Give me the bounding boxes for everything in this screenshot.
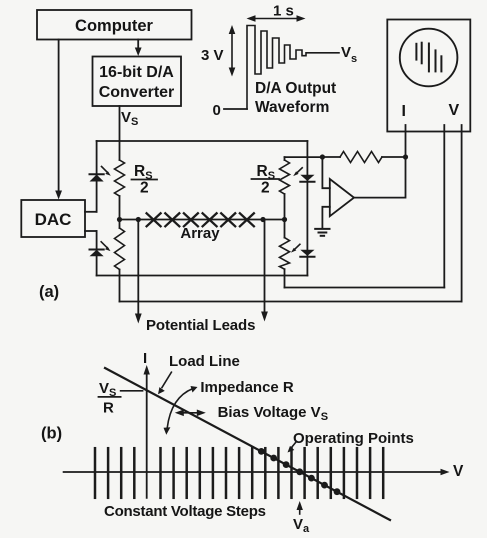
Josephson junction X2 <box>165 213 179 226</box>
potential lead right <box>264 220 266 314</box>
wire DAC upper stub <box>85 211 97 213</box>
resistor right lower <box>280 238 290 270</box>
wire resistor to node <box>119 196 121 220</box>
double arrow bias <box>180 412 202 414</box>
wire top rail <box>97 140 308 142</box>
svg-text:Potential Leads: Potential Leads <box>146 317 255 334</box>
constant voltage step ticks <box>95 448 383 498</box>
diode D3 <box>300 175 314 181</box>
svg-text:(b): (b) <box>41 425 62 443</box>
double arrow 1s span <box>251 18 301 20</box>
operating point 2 <box>270 455 277 462</box>
double arrow 3V span <box>231 30 233 72</box>
wire inverting input <box>322 157 329 188</box>
wire Vs from converter to bridge <box>119 106 121 160</box>
resistor Rs/2 left upper <box>115 160 125 196</box>
wire noninverting input to ground <box>322 207 329 229</box>
operating point 3 <box>283 461 290 468</box>
feedback resistor <box>340 152 382 163</box>
wire inner return <box>285 287 445 289</box>
box meter <box>387 20 470 132</box>
svg-text:Bias Voltage VS: Bias Voltage VS <box>218 404 328 423</box>
svg-text:Operating Points: Operating Points <box>293 430 414 447</box>
svg-text:D/A Output: D/A Output <box>255 80 336 97</box>
wire node to resistor <box>284 220 286 238</box>
svg-text:2: 2 <box>140 180 149 197</box>
svg-text:3 V: 3 V <box>201 47 224 64</box>
wire array <box>120 219 285 221</box>
svg-text:Waveform: Waveform <box>255 99 329 116</box>
arrow on D2 <box>101 242 108 249</box>
Josephson junction X3 <box>184 213 198 226</box>
wire meter I terminal down <box>405 125 407 157</box>
wire DAC lower stub <box>85 230 97 232</box>
wire computer to DAC <box>58 40 60 193</box>
junction dot left tap <box>136 217 141 222</box>
svg-text:Impedance R: Impedance R <box>200 379 294 396</box>
svg-text:Constant Voltage Steps: Constant Voltage Steps <box>104 503 266 520</box>
arrow on D4 <box>294 244 300 250</box>
wire resistor to outer return <box>119 270 121 302</box>
operating point 6 <box>321 482 328 489</box>
svg-text:1 s: 1 s <box>273 3 294 20</box>
arrow on D3 <box>296 168 302 174</box>
wire feedback resistor to node <box>382 156 406 158</box>
meter screen circle <box>400 29 458 87</box>
svg-text:16-bit D/A: 16-bit D/A <box>99 64 174 81</box>
op-amp U1 <box>330 179 354 216</box>
operating point 7 <box>334 488 341 495</box>
arrow Va <box>299 507 301 514</box>
arrowhead into converter <box>135 48 142 57</box>
box 16-bit D/A Converter <box>93 57 182 107</box>
wire right diode branch <box>306 141 308 276</box>
arrowhead into DAC <box>55 191 62 200</box>
Josephson junction X6 <box>240 213 254 226</box>
I axis <box>146 371 148 498</box>
svg-text:I: I <box>402 103 406 120</box>
resistor Rs/2 right upper <box>280 160 290 194</box>
wire node to resistor <box>119 220 121 229</box>
waveform D/A output <box>247 26 339 110</box>
diode D2 <box>90 250 104 257</box>
wire right resistor top to opamp node <box>285 156 323 158</box>
wire meter V terminal outer <box>461 125 463 302</box>
ground <box>315 228 329 230</box>
meter trace strokes <box>415 44 417 60</box>
Josephson junction X4 <box>203 213 217 226</box>
box Computer <box>37 10 192 40</box>
svg-text:I: I <box>143 350 147 367</box>
svg-text:V: V <box>449 102 460 119</box>
wire resistor to right node <box>284 194 286 220</box>
wire left diode branch upper <box>96 141 98 212</box>
arrow operating points <box>292 442 297 448</box>
junction dot feedback right <box>403 154 408 159</box>
potential lead left <box>137 220 139 316</box>
svg-text:R: R <box>103 400 114 417</box>
svg-text:2: 2 <box>261 180 270 197</box>
wire op-amp output <box>354 157 406 198</box>
diode D1 <box>90 175 104 182</box>
svg-text:(a): (a) <box>39 283 59 301</box>
svg-text:V: V <box>453 463 464 480</box>
arrow on D1 <box>102 167 109 174</box>
dash Vs/R to axis <box>121 390 143 392</box>
diode D4 <box>300 250 314 256</box>
svg-text:Computer: Computer <box>75 17 153 35</box>
wire left diode branch lower <box>96 231 98 276</box>
wire outer return <box>120 301 462 303</box>
Josephson junction X1 <box>147 213 161 226</box>
operating point 5 <box>308 475 315 482</box>
box DAC <box>21 200 85 237</box>
svg-text:0: 0 <box>213 102 221 119</box>
svg-text:Load Line: Load Line <box>169 353 240 370</box>
junction dot right node <box>282 217 287 222</box>
junction dot right tap <box>260 217 265 222</box>
wire bottom rail <box>97 275 308 277</box>
wire resistor to inner return <box>284 269 286 287</box>
Josephson junction X5 <box>221 213 235 226</box>
svg-text:Array: Array <box>180 225 220 242</box>
junction dot left node <box>117 217 122 222</box>
svg-text:Converter: Converter <box>99 84 175 101</box>
wire node to feedback resistor <box>322 156 340 158</box>
wire resistor top stub <box>284 157 286 160</box>
operating point 1 <box>258 448 265 455</box>
operating point 4 <box>296 468 303 475</box>
svg-text:DAC: DAC <box>35 210 72 229</box>
junction dot feedback left <box>320 154 325 159</box>
V axis <box>64 471 443 473</box>
resistor left lower <box>115 228 125 270</box>
load line <box>105 368 390 520</box>
fraction bar left <box>132 179 158 181</box>
wire meter V terminal inner <box>443 125 445 288</box>
fraction bar right <box>252 178 280 180</box>
curved arrow impedance <box>167 389 193 429</box>
wire computer to converter <box>137 40 139 50</box>
arrow load line pointer <box>162 372 171 387</box>
wire 0 baseline <box>224 108 247 110</box>
